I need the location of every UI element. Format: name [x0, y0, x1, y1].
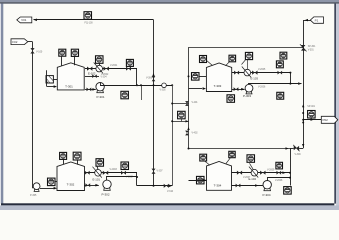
window bottom dark edge — [1, 203, 334, 205]
instrument square FQ-410 — [308, 111, 316, 119]
control valve FV-301 — [94, 63, 103, 74]
pump P-302 — [103, 180, 111, 190]
tank T-302 — [57, 162, 85, 191]
branch pipe to flag F4 — [303, 119, 321, 121]
pump P-303 — [245, 84, 253, 94]
svg-text:V-2006: V-2006 — [258, 87, 266, 89]
valve V-302C — [85, 183, 90, 187]
signal line to FV-304 — [250, 163, 254, 169]
pump P-303 suction — [232, 89, 245, 91]
nozzle pipe left on T-302 — [63, 159, 65, 164]
branch pipe recycle to riser upper — [172, 103, 188, 105]
control valve FV-303 — [242, 67, 251, 78]
valve V-301C — [126, 67, 131, 71]
junction dot discharge corner — [289, 83, 291, 85]
arrowhead on branch — [311, 119, 314, 121]
valve V-301E — [87, 88, 92, 92]
svg-text:E-103: E-103 — [251, 76, 259, 80]
valve V-306 on header drop — [152, 76, 156, 81]
valve V-308 on bottom transfer — [164, 184, 169, 188]
instrument square TI-305 — [277, 92, 284, 99]
relief valve RV-2 on riser — [185, 131, 189, 136]
relief valve RV-1 on riser — [185, 101, 189, 106]
junction dot branch — [302, 119, 304, 121]
arrowhead into flag F1 — [34, 19, 37, 22]
arrowhead into T-301 bottom — [54, 85, 57, 88]
tank T-303 — [206, 63, 231, 92]
connector to TI-306 — [226, 158, 231, 164]
arrowhead end of transfer — [169, 185, 172, 188]
nozzle pipe right on T-301 — [74, 57, 76, 66]
instrument square PI-304 — [284, 187, 292, 195]
window left light edge — [0, 4, 1, 204]
instrument square PI-300 — [121, 91, 128, 99]
svg-text:V-304: V-304 — [101, 76, 108, 78]
E-line corner drop — [290, 73, 292, 84]
window top bar — [0, 0, 339, 2]
pump P-304 — [263, 181, 271, 191]
instrument square AI-303 — [245, 52, 252, 59]
valve V-301B — [104, 67, 109, 71]
instrument square FIC-301 — [96, 56, 104, 64]
overhead pipe E-104 train — [232, 72, 291, 74]
overhead pipe E-105 train — [232, 172, 291, 174]
left feed drop pipe — [32, 42, 34, 188]
valve V-301A — [87, 67, 92, 71]
arrowhead into P-304 — [255, 184, 258, 187]
svg-text:E-102: E-102 — [88, 72, 96, 76]
feed pipe into tank bottom — [47, 86, 54, 88]
feed square FI-302 — [48, 178, 56, 186]
signal line to FV-303 — [246, 60, 248, 70]
bottom transfer pipe — [137, 185, 172, 187]
svg-text:E-101: E-101 — [93, 178, 101, 182]
svg-text:T-304: T-304 — [214, 183, 222, 187]
svg-text:P1: P1 — [315, 18, 319, 22]
header drop pipe — [153, 20, 155, 186]
pump P-302 suction — [84, 185, 99, 187]
svg-text:V-100: V-100 — [36, 51, 43, 54]
pump P-301 — [96, 83, 104, 93]
svg-text:V-306: V-306 — [146, 77, 153, 79]
control valve FV-302 — [93, 167, 102, 178]
instrument square FQI-100 on header — [84, 12, 92, 20]
window right bar — [336, 4, 339, 210]
svg-text:V-402: V-402 — [192, 133, 199, 135]
svg-text:FQ-100: FQ-100 — [85, 22, 94, 25]
svg-text:V-310: V-310 — [167, 191, 174, 193]
feed stub above X-301 — [46, 70, 48, 86]
junction dot V6 low — [289, 177, 291, 179]
connector to LI-304 — [205, 161, 211, 165]
instrument square PI-303 — [276, 61, 283, 68]
valve V-100 on left feed — [30, 48, 34, 53]
stem FQ-410 to branch — [311, 118, 313, 120]
svg-text:F02: F02 — [12, 40, 18, 44]
valve V-302B — [103, 171, 108, 175]
svg-text:V-2005: V-2005 — [258, 69, 266, 71]
junction dot recycle — [171, 84, 173, 86]
instrument square LI-304 — [200, 154, 207, 161]
svg-text:V-309: V-309 — [295, 154, 302, 156]
instrument square TI-304 — [229, 55, 236, 62]
valve V-303D — [278, 71, 283, 75]
svg-text:T-302: T-302 — [67, 183, 75, 187]
instrument square FIC-304 — [247, 155, 255, 163]
svg-text:P-305: P-305 — [30, 194, 37, 197]
junction dot riser mid — [302, 112, 304, 114]
valve V-304C — [236, 184, 241, 188]
pipe valve to utility riser — [299, 148, 303, 150]
pump P-301 suction pipe — [85, 89, 96, 91]
instrument square FI-400 — [227, 95, 235, 103]
instrument square TI-303 — [121, 162, 129, 170]
svg-text:V-305: V-305 — [160, 90, 167, 92]
svg-text:P-303: P-303 — [243, 94, 251, 98]
window top dark edge — [0, 2, 339, 3]
pipe from X-301 to tank — [53, 79, 57, 81]
pump P-302 discharge — [107, 177, 137, 181]
instrument square LI-302 — [60, 152, 67, 159]
return riser pipe V6 — [290, 149, 292, 186]
nozzle pipe left on T-301 — [61, 57, 63, 66]
valve SP-301 on utility riser — [301, 45, 305, 51]
instrument square PI-401 — [178, 111, 186, 119]
svg-text:V-2003: V-2003 — [110, 169, 118, 171]
window bottom bar — [0, 205, 339, 210]
valve V-304A — [237, 171, 242, 175]
off-page connector flag F4 — [321, 116, 338, 123]
arrowhead into pump P-301 — [92, 88, 95, 91]
pipe from flag F2 — [28, 41, 33, 43]
tank T-304 — [207, 162, 232, 191]
pipe from flag F1 to corner — [34, 19, 154, 21]
overhead drop pipe unit2 — [136, 173, 138, 186]
branch pipe recycle to riser lower — [172, 121, 188, 123]
signal stem to FV-301 — [99, 63, 101, 65]
junction dot riser low — [302, 122, 304, 124]
product header pipe — [100, 85, 172, 87]
overhead pipe E-101 train — [85, 68, 137, 70]
junction dot on recycle lower — [171, 120, 173, 122]
instrument square LI-301 — [59, 49, 66, 56]
connector to TI-304 — [226, 62, 230, 66]
pipe valve to return riser — [290, 148, 294, 150]
recycle drop pipe — [172, 85, 174, 186]
instrument square TI-306 — [229, 151, 235, 157]
arrowhead on riser at branch — [302, 104, 304, 107]
pump P-304 suction — [232, 185, 263, 187]
utility riser pipe — [303, 20, 305, 148]
handle of SP-301 — [300, 44, 307, 51]
signal diag to tank — [242, 59, 246, 64]
valve V-303B — [252, 71, 257, 75]
arrowhead into riser — [186, 120, 189, 122]
instrument square AI-304 — [276, 162, 283, 169]
nozzle pipe right on T-302 — [77, 160, 79, 165]
svg-text:V-307: V-307 — [157, 171, 164, 173]
svg-text:T-301: T-301 — [65, 85, 73, 89]
svg-text:V01: V01 — [21, 18, 27, 22]
pump P-305 inline — [33, 183, 40, 192]
junction dot at header mid — [140, 84, 142, 86]
instrument square FIC-302 — [96, 159, 104, 167]
instrument square PI-401b — [280, 52, 287, 59]
feed square FI-304 — [197, 176, 205, 184]
svg-text:V-2001: V-2001 — [110, 65, 118, 67]
valve SP-302 — [294, 146, 299, 150]
valve V-302D — [121, 171, 126, 175]
junction dot bottom transfer — [153, 185, 155, 187]
svg-text:P-301: P-301 — [96, 95, 104, 99]
junction dot header/drop — [153, 84, 155, 86]
junction dot at V6 — [289, 172, 291, 174]
svg-text:V-401: V-401 — [192, 102, 199, 104]
arrowhead into utility riser — [298, 82, 301, 85]
side stub pipe on T-301 — [85, 76, 99, 78]
window left bar — [1, 4, 3, 204]
valve V-303A — [234, 71, 239, 75]
arrowhead into T-302 — [54, 187, 57, 190]
control valve FV-304 — [249, 167, 258, 178]
junction dot on recycle upper — [171, 103, 173, 105]
junction dot discharge/drop — [136, 176, 138, 178]
overhead drop to product header — [136, 69, 138, 86]
svg-text:V-2007: V-2007 — [243, 177, 251, 179]
inline valve circle V-305 — [162, 83, 167, 88]
feed pipe into T-303 bottom — [189, 88, 203, 90]
pump P-303 discharge — [249, 84, 302, 85]
off-page connector flag F2 — [11, 39, 28, 45]
connector to LI-303 — [206, 60, 212, 65]
arrowhead into flag F3 — [305, 19, 308, 22]
valve V-303C — [234, 87, 239, 91]
signal line to FV-302 — [97, 166, 98, 169]
off-page connector flag F3 — [310, 17, 323, 23]
instrument square TI-301 — [71, 49, 78, 56]
svg-text:P-302: P-302 — [101, 193, 109, 197]
spare drop stub — [141, 85, 143, 100]
arrowhead on frame bottom — [286, 147, 289, 149]
stem PI-401 to branch — [181, 119, 183, 122]
pump P-301 discharge — [100, 83, 102, 86]
svg-text:SP-301: SP-301 — [308, 46, 316, 48]
valve V-304B — [260, 171, 265, 175]
pump P-304 discharge — [268, 178, 291, 181]
handle of SP-302 — [293, 145, 299, 151]
svg-text:P02: P02 — [323, 118, 329, 122]
tank T-301 — [57, 63, 84, 90]
feed pipe into T-302 — [40, 188, 54, 190]
svg-text:V-2009: V-2009 — [267, 170, 275, 172]
svg-text:P-304: P-304 — [262, 193, 270, 197]
instrument square TI-302 — [73, 152, 81, 160]
junction dot feed — [188, 75, 190, 77]
junction dot frame bottom — [188, 148, 190, 150]
right section frame — [189, 48, 304, 149]
arrowhead up on header drop — [152, 73, 155, 76]
svg-text:SP-401: SP-401 — [307, 106, 315, 108]
valve V-301D — [92, 74, 97, 78]
pipe from FI-303 to tank — [199, 76, 206, 78]
arrowhead end utility riser — [302, 144, 304, 147]
overhead pipe E-103 train — [84, 172, 137, 174]
pipe from corner to flag F3 — [303, 20, 310, 22]
valve V-304D — [277, 171, 282, 175]
pipe from FI-304 to tank — [189, 180, 207, 182]
svg-text:V-2008: V-2008 — [275, 180, 283, 182]
arrowhead into P-302 — [95, 184, 98, 187]
arrowhead up on riser — [187, 127, 189, 130]
pipe from FI-302 to tank — [55, 181, 57, 183]
feed square FI-303 — [192, 73, 200, 81]
off-page connector flag F1 — [17, 17, 32, 23]
instrument square HS-301 — [126, 59, 133, 66]
instrument square LI-303 — [200, 56, 207, 63]
junction dot E-line corner — [289, 72, 291, 74]
valve V-302A — [85, 171, 90, 175]
feed hatch box X-301 — [46, 76, 53, 83]
arrowhead into T-303 — [203, 87, 206, 90]
valve V-307 on header drop low — [152, 169, 156, 174]
junction dot overhead/product — [136, 84, 138, 86]
window right dark edge — [334, 4, 336, 204]
svg-text:V-301: V-301 — [308, 49, 315, 51]
svg-text:T-303: T-303 — [214, 84, 222, 88]
arrowhead transfer right — [282, 171, 285, 174]
arrowhead into P-303 — [241, 88, 244, 91]
arrowhead into T-304 — [203, 179, 206, 182]
